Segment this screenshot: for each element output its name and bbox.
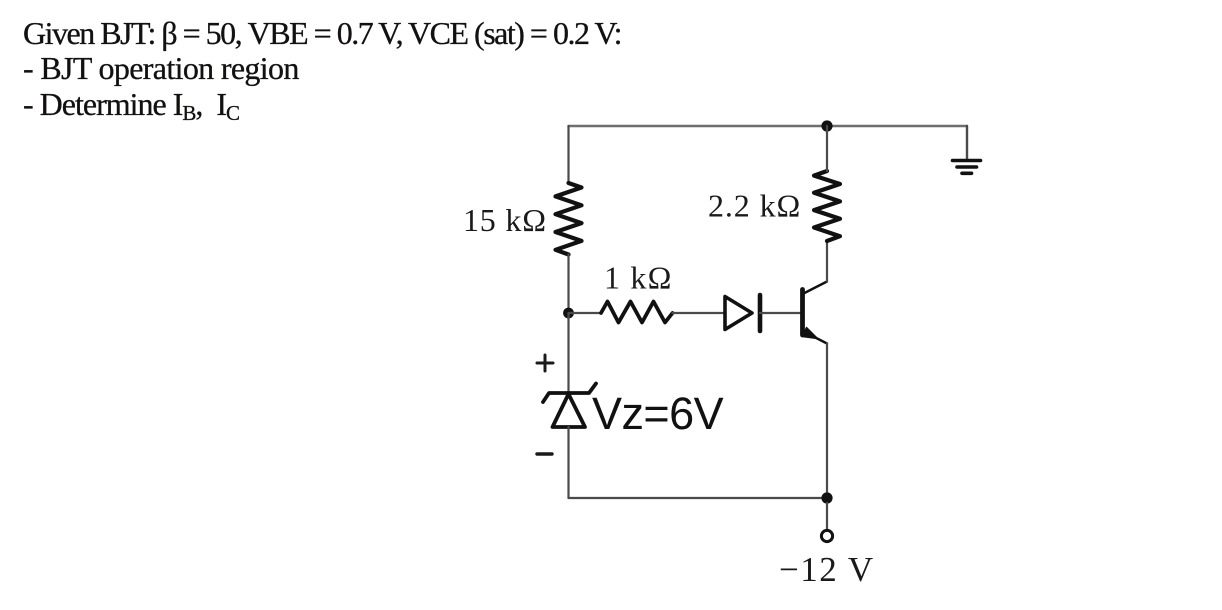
wire: 2.2k to top rail [826,126,828,171]
problem statement text [23,16,621,126]
label minus [537,452,552,455]
wire: left rail node to zener [567,313,569,392]
emitter arrow [803,328,818,339]
wire: top horizontal rail [569,125,968,127]
wire: left rail, resistor to node [567,255,569,314]
transistor Q1 (NPN) [803,282,828,344]
label + [537,355,553,371]
wire: diode to base [760,312,800,314]
base bar [800,290,805,336]
wire: node to supply terminal [826,503,828,529]
node: divider junction dot [563,308,574,319]
wire: node to 1k resistor [569,312,602,314]
node: emitter junction dot [821,492,832,503]
svg-text:Vz=6V: Vz=6V [592,388,724,439]
node: top junction dot [821,120,832,131]
terminal: open circle [821,530,832,541]
zener diode Vz [543,384,596,428]
collector diagonal [804,282,828,294]
svg-text:2.2 kΩ: 2.2 kΩ [708,188,801,224]
wire: zener to bottom rail [567,427,569,498]
resistor 2.2 kOhm [814,171,840,241]
svg-text:−12 V: −12 V [779,550,875,589]
emitter diagonal [804,332,828,344]
wire: 1k resistor to diode [673,312,726,314]
svg-text:15 kΩ: 15 kΩ [463,202,547,238]
wire: left rail top segment [567,126,569,183]
wire: ground drop [966,126,968,160]
resistor 15 kOhm [556,183,582,255]
svg-text:1 kΩ: 1 kΩ [604,260,673,296]
wire: emitter down to bottom rail [826,344,828,499]
resistor 1 kOhm [601,302,673,323]
diode D (series with base) [725,295,760,331]
wire: bottom horizontal rail [569,497,828,499]
ground [953,161,981,174]
wire: collector up to 2.2k [826,241,828,282]
